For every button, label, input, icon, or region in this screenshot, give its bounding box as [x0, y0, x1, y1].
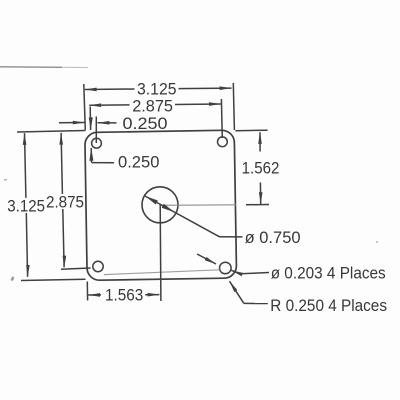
svg-text:2.875: 2.875	[46, 193, 84, 211]
svg-text:ø 0.750: ø 0.750	[245, 229, 301, 247]
svg-text:3.125: 3.125	[7, 198, 45, 216]
svg-text:1.563: 1.563	[105, 287, 143, 305]
svg-text:1.562: 1.562	[242, 159, 280, 177]
svg-text:0.250: 0.250	[123, 115, 168, 133]
svg-text:3.125: 3.125	[137, 80, 177, 98]
svg-text:2.875: 2.875	[132, 98, 173, 116]
svg-text:R 0.250 4 Places: R 0.250 4 Places	[270, 297, 387, 315]
svg-text:0.250: 0.250	[118, 154, 159, 172]
svg-text:ø 0.203 4 Places: ø 0.203 4 Places	[271, 264, 386, 282]
